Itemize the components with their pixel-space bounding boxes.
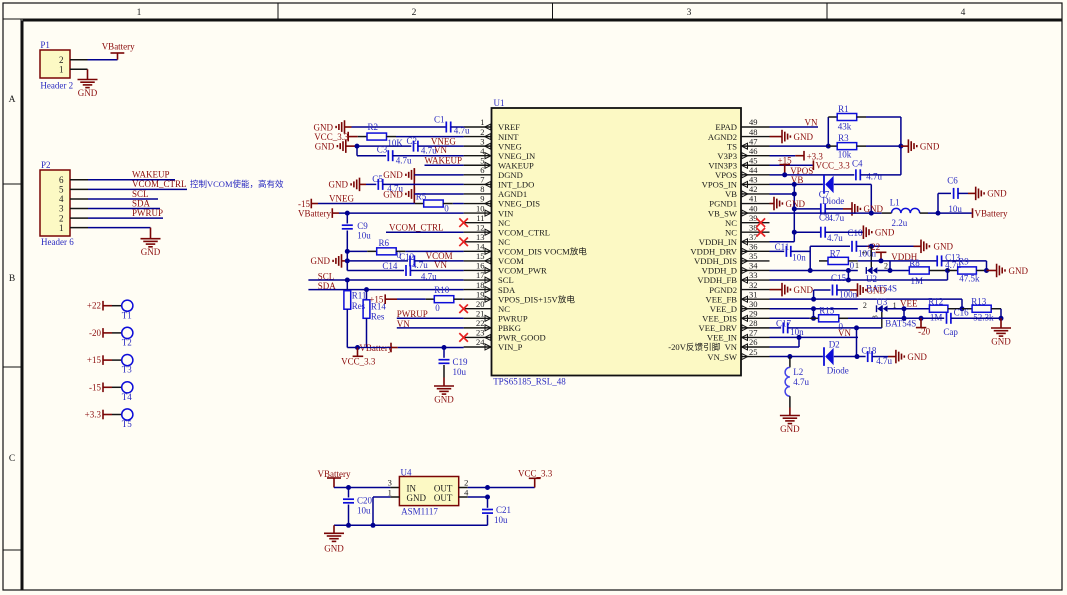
U1 pin 30 VEE_D xyxy=(710,299,770,314)
node C6 junction xyxy=(936,211,941,216)
U1 pin 49 EPAD xyxy=(715,117,769,132)
net label VB xyxy=(791,175,804,185)
wire U1 pin49 EPAD xyxy=(770,126,819,128)
net label SDA (P2) xyxy=(132,198,151,208)
capacitor C4 xyxy=(852,159,882,182)
svg-text:2: 2 xyxy=(884,262,888,271)
test point T5 xyxy=(85,409,133,429)
svg-text:GND: GND xyxy=(407,493,427,503)
node VB_SW junction xyxy=(869,211,874,216)
node VB pin42 xyxy=(792,191,797,196)
svg-text:VBattery: VBattery xyxy=(102,41,135,51)
power port VCC_3.3 (U4) xyxy=(518,468,553,487)
node SDA junction xyxy=(364,287,369,292)
svg-text:C15: C15 xyxy=(831,273,847,283)
svg-text:SDA: SDA xyxy=(498,285,516,295)
net label SCL (P2) xyxy=(132,189,149,199)
capacitor C17 xyxy=(776,319,804,338)
node VNEG junction xyxy=(355,144,360,149)
svg-text:35: 35 xyxy=(749,251,758,261)
ground GND (P2) xyxy=(141,239,161,258)
svg-text:VEE_FB: VEE_FB xyxy=(705,294,737,304)
wire D2 anode to C18 xyxy=(834,356,866,358)
power port VBattery (VIN_P line) xyxy=(355,343,398,353)
svg-text:VNEG: VNEG xyxy=(329,193,354,203)
svg-text:VCOM_PWR: VCOM_PWR xyxy=(498,266,547,276)
U1 pin 2 NINT xyxy=(464,127,520,142)
svg-text:NC: NC xyxy=(725,218,737,228)
ground GND (PGND1 line) xyxy=(770,197,806,211)
net label WAKEUP (U1) xyxy=(425,156,463,166)
resistor R1 xyxy=(828,104,866,132)
svg-text:INT_LDO: INT_LDO xyxy=(498,180,534,190)
connector P1 xyxy=(40,40,73,91)
zone numbers xyxy=(137,8,966,18)
node C21 junction top xyxy=(485,485,490,490)
svg-text:GND: GND xyxy=(867,285,887,295)
capacitor C8 xyxy=(794,203,844,223)
svg-text:48: 48 xyxy=(749,127,758,137)
wire P2 pin2 PWRUP xyxy=(70,217,163,219)
svg-text:EPAD: EPAD xyxy=(715,122,737,132)
svg-text:BAT54S: BAT54S xyxy=(885,318,916,328)
capacitor C10 xyxy=(794,227,863,243)
node VIN junction xyxy=(345,211,350,216)
wire U4 GND pin1 xyxy=(373,497,399,525)
U1 pin 40 VB_SW xyxy=(708,203,770,218)
svg-text:4.7u: 4.7u xyxy=(866,172,882,182)
wire U4 OUT pin2 to VCC_3.3 xyxy=(459,487,535,489)
svg-text:2: 2 xyxy=(863,301,867,310)
net label VNEG xyxy=(431,137,456,147)
power port +15 (R10 line) xyxy=(369,294,397,304)
zone letters xyxy=(9,95,16,464)
svg-text:NINT: NINT xyxy=(498,132,519,142)
capacitor C5 xyxy=(372,174,403,194)
svg-text:GND: GND xyxy=(78,88,98,98)
svg-text:T2: T2 xyxy=(122,338,132,348)
wire P1 pin1 to GND xyxy=(70,69,88,79)
svg-text:10n: 10n xyxy=(790,327,804,337)
svg-text:VEE_D: VEE_D xyxy=(710,304,737,314)
wire -15 to R5 xyxy=(318,203,415,205)
svg-text:VN: VN xyxy=(434,145,447,155)
svg-text:13: 13 xyxy=(476,232,485,242)
svg-text:D2: D2 xyxy=(829,340,840,350)
power port -20 (VEE_DIS line) xyxy=(916,316,931,337)
capacitor C6 xyxy=(947,175,962,214)
U1 pin 18 SDA xyxy=(464,280,516,295)
svg-text:GND: GND xyxy=(434,395,454,405)
svg-text:GND: GND xyxy=(794,132,814,142)
svg-text:15: 15 xyxy=(476,251,485,261)
wire C9 down to R6 junction xyxy=(346,231,348,271)
wire U1 pin34 VDDH_D xyxy=(770,269,858,271)
no-connect X U1 pin11 xyxy=(459,218,468,227)
node VDDH +22 xyxy=(879,258,884,263)
svg-text:WAKEUP: WAKEUP xyxy=(498,160,534,170)
U1 pin 45 VIN3P3 xyxy=(708,155,769,170)
svg-text:T1: T1 xyxy=(122,310,132,320)
wire pin33 tee to pin34 xyxy=(846,268,851,283)
power port +22 (VDDH line) xyxy=(866,242,886,261)
svg-text:GND: GND xyxy=(141,247,161,257)
svg-text:NC: NC xyxy=(498,237,510,247)
wire R6 to U1 pin14 xyxy=(405,250,463,252)
net label VNEG (R5 line) xyxy=(329,193,354,203)
node R8 R9 junction xyxy=(945,268,950,273)
ground GND (VNEG line) xyxy=(315,139,357,153)
wire VEE tee down xyxy=(902,309,907,321)
U1 pin 47 TS xyxy=(727,136,770,151)
U1 pin 43 VPOS_IN xyxy=(702,175,770,190)
svg-text:VN: VN xyxy=(838,328,851,338)
svg-text:OUT: OUT xyxy=(434,493,453,503)
resistor R13 xyxy=(962,297,1001,323)
net label VDDH xyxy=(891,252,917,262)
wire U1 pin25 VN_SW xyxy=(770,356,823,358)
node riser pin34 xyxy=(808,268,813,273)
diode U3 BAT54S xyxy=(863,297,916,328)
U1 pin 7 INT_LDO xyxy=(464,175,535,190)
svg-text:VCOM: VCOM xyxy=(498,256,524,266)
svg-text:R13: R13 xyxy=(971,297,987,307)
svg-text:PGND2: PGND2 xyxy=(709,285,737,295)
svg-text:VN: VN xyxy=(805,118,818,128)
svg-text:C: C xyxy=(9,454,15,464)
resistor R3 xyxy=(828,133,866,160)
svg-text:VEE_DIS: VEE_DIS xyxy=(702,314,737,324)
svg-text:9: 9 xyxy=(480,194,484,204)
net label WAKEUP (P2) xyxy=(132,170,170,180)
svg-text:VPOS: VPOS xyxy=(715,170,737,180)
U1 pin 8 AGND1 xyxy=(464,184,528,199)
svg-text:Res: Res xyxy=(371,312,385,322)
wire WAKEUP to U1 pin5 xyxy=(425,164,464,166)
svg-text:30: 30 xyxy=(749,299,758,309)
zone column dividers xyxy=(278,3,827,19)
wire U1 pin29 VEE_DIS to R15 xyxy=(770,317,810,319)
svg-text:27: 27 xyxy=(749,328,758,338)
wire C3 to U1 pin4 xyxy=(393,155,464,157)
svg-text:GND: GND xyxy=(920,141,940,151)
svg-text:4.7u: 4.7u xyxy=(793,377,809,387)
svg-text:22: 22 xyxy=(476,318,485,328)
svg-text:GND: GND xyxy=(987,189,1007,199)
U1 pin 17 SCL xyxy=(464,270,514,285)
resistor R6 xyxy=(347,238,405,260)
svg-text:GND: GND xyxy=(315,141,335,151)
IC U1 body xyxy=(492,98,742,387)
svg-text:R7: R7 xyxy=(830,249,841,259)
svg-text:0: 0 xyxy=(435,303,440,313)
wire SDA to U1 pin18 xyxy=(308,289,463,291)
wire C12 to U1 pin15 xyxy=(414,260,463,262)
wire U3 pin3 riser down xyxy=(871,312,882,328)
svg-text:36: 36 xyxy=(749,242,758,252)
U1 pin 24 VIN_P xyxy=(464,337,523,352)
svg-text:2: 2 xyxy=(59,213,64,223)
wire P2 pin4 SCL xyxy=(70,198,158,200)
svg-text:10u: 10u xyxy=(357,231,371,241)
test point T2 xyxy=(89,327,133,347)
wire C20 to gnd bus xyxy=(346,505,351,528)
wire U1 pin27 VEE_IN xyxy=(770,336,859,338)
svg-text:VB: VB xyxy=(725,189,737,199)
no-connect X U1 pin20 xyxy=(459,304,468,313)
svg-text:R6: R6 xyxy=(379,238,390,248)
wire P1 pin2 to VBattery xyxy=(70,59,118,61)
svg-text:2: 2 xyxy=(59,55,64,65)
svg-text:T3: T3 xyxy=(122,365,132,375)
wire GND to U1 pin6 xyxy=(414,174,463,176)
node VEE GND junction xyxy=(999,316,1004,321)
svg-text:PWRUP: PWRUP xyxy=(132,208,163,218)
capacitor C16 xyxy=(943,308,969,338)
svg-text:C21: C21 xyxy=(496,505,511,515)
svg-text:GND: GND xyxy=(934,242,954,252)
wire GND to C5 xyxy=(366,183,376,185)
svg-text:10u: 10u xyxy=(948,204,962,214)
svg-text:R5: R5 xyxy=(416,192,427,202)
svg-text:GND: GND xyxy=(324,543,344,553)
svg-text:GND: GND xyxy=(794,285,814,295)
svg-text:控制VCOM使能，高有效: 控制VCOM使能，高有效 xyxy=(190,179,284,189)
U1 pin 12 VCOM_CTRL xyxy=(464,222,550,237)
wire U1 pin28 VEE_DRV to C17 xyxy=(770,327,782,329)
svg-text:24: 24 xyxy=(476,337,485,347)
svg-text:0: 0 xyxy=(444,204,449,214)
U1 pin 15 VCOM xyxy=(464,251,525,266)
svg-text:11: 11 xyxy=(476,213,484,223)
svg-text:7: 7 xyxy=(480,175,484,185)
capacitor C1 xyxy=(434,115,470,136)
svg-text:Header 6: Header 6 xyxy=(41,237,74,247)
wire U1 pin26 VN xyxy=(770,337,800,347)
inductor L1 xyxy=(882,198,928,229)
node C20 junction top xyxy=(346,485,351,490)
inductor L2 xyxy=(785,357,809,397)
wire U1 pin37 VDDH_IN xyxy=(770,241,795,243)
svg-text:PWR_GOOD: PWR_GOOD xyxy=(498,333,546,343)
wire tee down to D2 anode xyxy=(856,328,858,357)
svg-text:R11: R11 xyxy=(352,291,367,301)
power port VBattery (VIN line) xyxy=(298,208,339,218)
svg-text:VCC_3.3: VCC_3.3 xyxy=(518,468,553,478)
svg-text:16: 16 xyxy=(476,261,485,271)
svg-text:4: 4 xyxy=(59,194,64,204)
svg-text:5: 5 xyxy=(59,185,64,195)
node VEE_IN junction xyxy=(797,335,802,340)
diode D2 xyxy=(824,340,849,376)
svg-text:10k: 10k xyxy=(838,150,852,160)
U1 pin 29 VEE_DIS xyxy=(702,309,769,324)
svg-text:C11: C11 xyxy=(775,242,790,252)
wire R1 to right riser xyxy=(866,117,901,175)
U1 pin 35 VDDH_DIS xyxy=(694,251,769,266)
svg-text:10u: 10u xyxy=(453,367,467,377)
capacitor C12 xyxy=(399,252,428,270)
wire L1 to VBattery xyxy=(928,212,972,214)
power port VBattery (P1) xyxy=(102,41,135,59)
test point T4 xyxy=(89,382,133,402)
capacitor C14 xyxy=(382,261,437,281)
U1 pin 37 VDDH_IN xyxy=(699,232,770,247)
U1 pin 26 -20V反馈引脚 VN xyxy=(668,337,769,352)
U1 pin 1 VREF xyxy=(464,117,521,132)
wire R5 to U1 pin9 xyxy=(453,203,464,205)
power port +3.3 (V3P3 line) xyxy=(770,151,824,162)
wire U2 pin3 riser xyxy=(860,246,872,267)
U1 pin 9 VNEG_DIS xyxy=(464,194,541,209)
wire R15 to C16 xyxy=(848,317,944,319)
svg-text:+15: +15 xyxy=(87,355,102,365)
svg-text:R12: R12 xyxy=(928,297,943,307)
U1 pin 14 VCOM_DIS VOCM放电 xyxy=(464,242,588,257)
svg-text:4.7u: 4.7u xyxy=(412,260,428,270)
svg-text:42: 42 xyxy=(749,184,758,194)
U1 pin 5 WAKEUP xyxy=(464,155,534,170)
power port VBattery (U4) xyxy=(318,469,351,488)
svg-text:T5: T5 xyxy=(122,419,132,429)
svg-text:38: 38 xyxy=(749,222,758,232)
ground GND (AGND1 line) xyxy=(383,187,414,201)
svg-text:1: 1 xyxy=(855,261,859,270)
svg-text:PGND1: PGND1 xyxy=(709,199,737,209)
svg-text:VEE_DRV: VEE_DRV xyxy=(699,323,738,333)
svg-text:VBattery: VBattery xyxy=(298,209,331,219)
svg-text:1: 1 xyxy=(59,65,64,75)
wire U1 pin33 VDDH_FB xyxy=(770,279,948,281)
svg-text:31: 31 xyxy=(749,289,758,299)
svg-text:VB_SW: VB_SW xyxy=(708,208,738,218)
wire VDDH tee down xyxy=(889,261,891,271)
wire C1 to U1 pin1 xyxy=(451,126,464,128)
wire VDDH riser xyxy=(809,246,811,270)
node C18 junction xyxy=(855,354,860,359)
wire C14 to U1 pin16 xyxy=(410,269,463,271)
svg-text:1M: 1M xyxy=(911,276,924,286)
resistor R11 xyxy=(344,280,366,311)
svg-text:U1: U1 xyxy=(494,98,505,108)
svg-text:GND: GND xyxy=(1009,266,1029,276)
wire GND to U1 pin8 xyxy=(414,193,463,195)
no-connect X U1 pin39 xyxy=(757,218,766,227)
svg-text:Cap: Cap xyxy=(943,327,958,337)
ground GND (DGND line) xyxy=(383,168,414,182)
svg-text:VCC_3.3: VCC_3.3 xyxy=(816,160,851,170)
svg-text:VDDH_D: VDDH_D xyxy=(702,266,737,276)
svg-text:GND: GND xyxy=(991,337,1011,347)
U1 pin 13 NC xyxy=(464,232,511,247)
node VPOS junction xyxy=(782,172,787,177)
svg-text:GND: GND xyxy=(311,256,331,266)
comment text VCOM enable xyxy=(190,179,284,189)
svg-text:B: B xyxy=(9,274,15,284)
svg-text:+22: +22 xyxy=(87,301,101,311)
U1 pin 31 VEE_FB xyxy=(705,289,769,304)
svg-text:PWRUP: PWRUP xyxy=(498,314,528,324)
wire VB to U1 pin42 xyxy=(770,193,795,195)
power port -15 (VNEG_DIS line) xyxy=(298,199,318,209)
svg-text:VN: VN xyxy=(434,260,447,270)
svg-text:A: A xyxy=(9,95,16,105)
svg-text:25: 25 xyxy=(749,347,758,357)
no-connect X U1 pin13 xyxy=(459,237,468,246)
U1 pin 23 PWR_GOOD xyxy=(464,328,546,343)
U1 pin 28 VEE_DRV xyxy=(699,318,770,333)
svg-text:4.7u: 4.7u xyxy=(827,233,843,243)
wire U1 pin31 VEE_FB xyxy=(770,299,963,309)
svg-text:C1: C1 xyxy=(434,115,445,125)
node VCOM junction xyxy=(345,258,350,263)
svg-text:WAKEUP: WAKEUP xyxy=(425,156,463,166)
svg-text:Diode: Diode xyxy=(827,366,849,376)
resistor R5 xyxy=(415,192,453,214)
svg-text:5: 5 xyxy=(480,155,484,165)
svg-text:T4: T4 xyxy=(122,392,132,402)
wire C19 to GND xyxy=(443,365,445,386)
resistor R14 xyxy=(363,290,386,322)
U1 pin 11 NC xyxy=(464,213,511,228)
svg-text:P2: P2 xyxy=(41,160,51,170)
wire R11 to VCC rail xyxy=(347,309,357,347)
svg-text:OUT: OUT xyxy=(434,483,453,493)
node R12 R13 junction xyxy=(960,306,965,311)
resistor R2 xyxy=(358,122,404,148)
svg-text:C3: C3 xyxy=(377,145,388,155)
net label VCOM_CTRL (U1) xyxy=(389,222,444,232)
svg-text:1: 1 xyxy=(388,487,392,497)
resistor R10 xyxy=(397,285,463,313)
svg-text:TPS65185_RSL_48: TPS65185_RSL_48 xyxy=(493,377,566,387)
svg-text:PBKG: PBKG xyxy=(498,323,521,333)
ground GND (U4) xyxy=(324,533,344,553)
net label VN (EPAD line) xyxy=(805,118,818,128)
svg-text:VIN: VIN xyxy=(498,208,514,218)
svg-text:46: 46 xyxy=(749,146,758,156)
svg-text:VCOM_CTRL: VCOM_CTRL xyxy=(132,179,187,189)
resistor R12 xyxy=(928,297,962,323)
svg-text:VPOS_IN: VPOS_IN xyxy=(702,180,738,190)
svg-text:R2: R2 xyxy=(368,122,379,132)
svg-text:C6: C6 xyxy=(947,175,958,185)
wire C6 branch xyxy=(938,193,951,213)
wire R13 corner down xyxy=(1000,309,1002,319)
ground GND (R9 line) xyxy=(987,264,1029,278)
svg-text:3: 3 xyxy=(59,204,64,214)
svg-text:DGND: DGND xyxy=(498,170,523,180)
wire P2 pin3 SDA xyxy=(70,208,160,210)
svg-text:39: 39 xyxy=(749,213,758,223)
wire U2 pin2 to R8 xyxy=(877,269,909,271)
wire C4 to right riser xyxy=(860,174,901,176)
svg-text:41: 41 xyxy=(749,194,758,204)
svg-text:GND: GND xyxy=(907,352,927,362)
U1 pin 16 VCOM_PWR xyxy=(464,261,547,276)
net label PWRUP (P2) xyxy=(132,208,163,218)
svg-text:C19: C19 xyxy=(453,357,469,367)
U1 pin 44 VPOS xyxy=(715,165,769,180)
capacitor C9 xyxy=(342,221,371,241)
U1 pin 22 PBKG xyxy=(464,318,521,333)
U1 pin 34 VDDH_D xyxy=(702,261,770,276)
svg-text:43: 43 xyxy=(749,175,758,185)
ground GND (C18 line) xyxy=(872,350,927,364)
svg-text:-20: -20 xyxy=(918,327,930,337)
svg-text:21: 21 xyxy=(476,309,485,319)
svg-text:4.7u: 4.7u xyxy=(828,213,844,223)
